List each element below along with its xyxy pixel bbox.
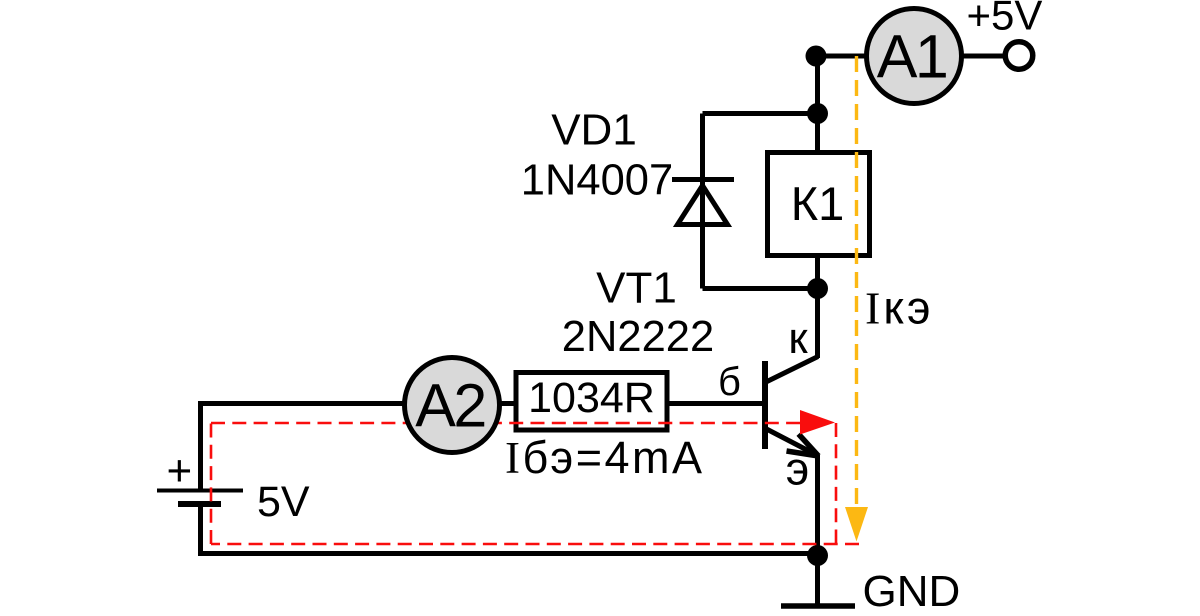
wire emitter vertical (815, 455, 820, 556)
battery G1 negative plate (178, 501, 221, 507)
svg-text:VT1: VT1 (596, 264, 677, 313)
svg-text:э: э (786, 443, 809, 495)
diode VD1 cathode bar (672, 177, 734, 182)
wire main vertical top (815, 56, 820, 155)
transistor VT1 emitter arrow barb lower (787, 451, 819, 456)
wire resistor to base (667, 401, 765, 406)
relay K1 body (768, 153, 870, 256)
wire diode anode lead (700, 227, 705, 289)
transistor VT1 emitter diagonal (767, 429, 819, 456)
wire A2 to resistor R1 (452, 401, 516, 406)
transistor VT1 collector diagonal (766, 357, 818, 383)
transistor VT1 base bar (762, 361, 768, 449)
wire battery left vertical lower (198, 504, 203, 556)
svg-text:Iбэ=4mA: Iбэ=4mA (505, 432, 705, 483)
wire bottom return (201, 551, 818, 556)
wire collector vertical (815, 289, 820, 358)
wire diode top horizontal (703, 111, 818, 116)
svg-text:К1: К1 (791, 177, 845, 230)
wire red dashed loop right (835, 423, 838, 544)
wire battery+ to A2 (198, 401, 452, 406)
svg-text:Iкэ: Iкэ (865, 282, 933, 334)
ground bar (781, 603, 855, 609)
red current arrow Ibe (800, 410, 835, 435)
node emitter ground junction (807, 545, 828, 566)
svg-text:к: к (788, 314, 808, 363)
node top junction (806, 46, 827, 67)
wire red dashed loop left (210, 423, 213, 544)
svg-text:б: б (718, 360, 741, 404)
wire orange dashed Ike (855, 56, 858, 508)
diode VD1 triangle (678, 186, 728, 225)
wire relay bottom lead (815, 255, 820, 289)
transistor VT1 emitter arrow barb upper (799, 434, 819, 456)
wire red dashed loop top (211, 422, 800, 425)
svg-text:5V: 5V (257, 478, 310, 526)
orange current arrow Ike (845, 507, 868, 542)
wire top node to A1 (816, 54, 868, 59)
wire red dashed loop bottom (211, 543, 859, 546)
svg-text:1034R: 1034R (528, 374, 655, 422)
svg-text:1N4007: 1N4007 (521, 156, 673, 204)
svg-text:2N2222: 2N2222 (562, 313, 714, 361)
ammeter A1 (867, 9, 962, 104)
svg-text:А1: А1 (877, 22, 947, 90)
svg-text:+: + (166, 447, 192, 496)
svg-text:VD1: VD1 (551, 105, 637, 154)
wire diode bottom horizontal (703, 286, 818, 291)
wire diode cathode lead (700, 114, 705, 289)
wire battery left vertical upper (198, 401, 203, 490)
terminal +5V (1005, 42, 1033, 70)
svg-text:А2: А2 (415, 371, 485, 439)
ground lead (815, 556, 820, 605)
node diode top junction (807, 103, 828, 124)
resistor R1 1034R body (516, 373, 667, 431)
node diode bottom junction (807, 278, 828, 299)
battery G1 positive plate (157, 489, 243, 493)
ammeter A2 (405, 358, 500, 453)
svg-text:+5V: +5V (967, 0, 1043, 39)
wire A1 to +5V terminal (960, 54, 1004, 59)
svg-text:GND: GND (863, 567, 961, 616)
